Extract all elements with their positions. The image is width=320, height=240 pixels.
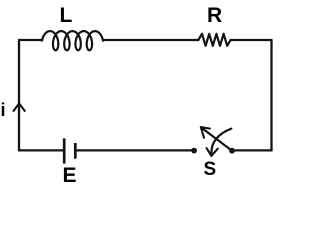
label R [207,5,222,26]
wire top-left segment [19,39,42,41]
switch right contact dot [229,148,235,154]
resistor R zigzag [198,34,230,46]
switch motion arc [211,129,231,155]
inductor L coil [42,31,103,50]
wire top middle segment [103,39,198,41]
wire battery to switch [77,149,194,151]
wire right dot to corner [232,149,272,151]
label E [63,165,77,186]
switch blade arrowhead [201,127,210,138]
wire left vertical [18,40,20,150]
wire bottom-left segment [19,149,63,151]
wire right vertical [270,40,272,150]
current arrow on left wire [14,103,25,111]
label i [1,101,6,119]
battery E right plate (short) [74,143,77,159]
wire top-right segment [231,39,272,41]
switch motion arc arrowhead [207,148,218,156]
switch left contact dot [191,148,197,154]
label S [204,160,217,179]
label L [60,5,73,26]
switch S blade [202,128,232,150]
battery E left plate (long) [63,138,66,163]
